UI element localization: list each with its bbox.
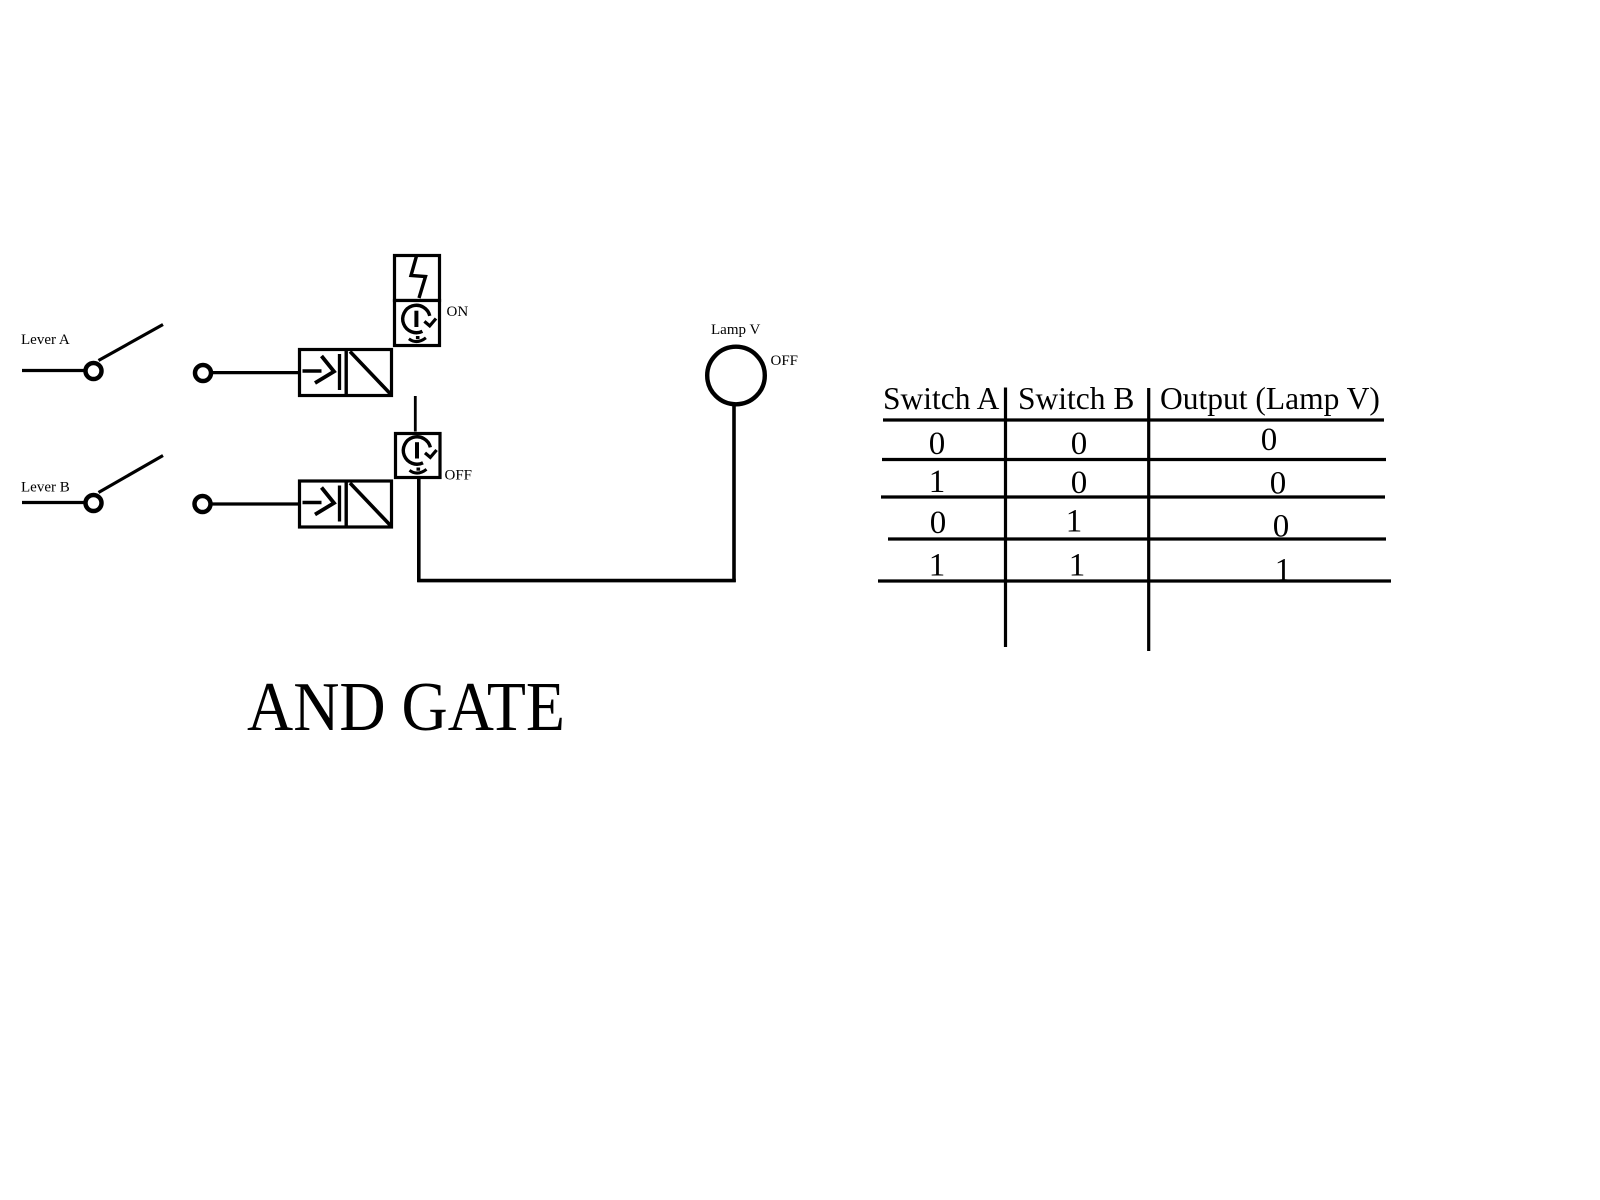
converter B (300, 481, 392, 527)
ON switch box (395, 301, 440, 346)
svg-text:0: 0 (929, 426, 946, 462)
svg-text:Lever B: Lever B (21, 480, 70, 496)
svg-text:0: 0 (1261, 422, 1278, 458)
svg-text:Switch B: Switch B (1018, 381, 1134, 416)
svg-text:OFF: OFF (445, 468, 473, 484)
wire input B (211, 502, 299, 505)
lamp V (707, 347, 765, 405)
svg-text:Switch A: Switch A (883, 381, 1000, 416)
svg-text:1: 1 (1275, 553, 1292, 589)
table vline 1 (1004, 388, 1007, 648)
svg-text:0: 0 (1071, 465, 1088, 501)
svg-text:0: 0 (1071, 426, 1088, 462)
OFF switch box (396, 434, 441, 478)
wire input A (211, 371, 299, 374)
wire bottom horizontal (417, 579, 736, 583)
converter A (300, 350, 392, 396)
wire lamp down (732, 403, 736, 582)
table hline 5 (878, 579, 1391, 582)
switch lever B (22, 456, 163, 512)
svg-text:1: 1 (929, 548, 946, 584)
svg-text:Lever A: Lever A (21, 332, 70, 348)
table hline 2 (882, 458, 1386, 461)
table vline 2 (1147, 388, 1150, 651)
switch lever A (22, 325, 163, 380)
svg-text:OFF: OFF (771, 353, 799, 369)
svg-text:ON: ON (447, 304, 469, 320)
svg-text:AND GATE: AND GATE (247, 669, 565, 746)
svg-text:0: 0 (1273, 509, 1290, 545)
table hline 1 (883, 418, 1384, 421)
svg-text:Lamp V: Lamp V (711, 322, 760, 338)
svg-text:1: 1 (929, 464, 946, 500)
supply box (lightning) (395, 256, 440, 301)
svg-text:1: 1 (1066, 504, 1083, 540)
svg-text:1: 1 (1069, 548, 1086, 584)
wire between circuits (414, 396, 417, 432)
table hline 4 (888, 537, 1386, 540)
svg-text:Output (Lamp V): Output (Lamp V) (1160, 381, 1380, 416)
svg-text:0: 0 (1270, 466, 1287, 502)
input node A (195, 365, 211, 381)
input node B (195, 496, 211, 512)
wire up to OFF box (417, 479, 421, 582)
svg-text:0: 0 (930, 505, 947, 541)
table hline 3 (881, 495, 1385, 498)
